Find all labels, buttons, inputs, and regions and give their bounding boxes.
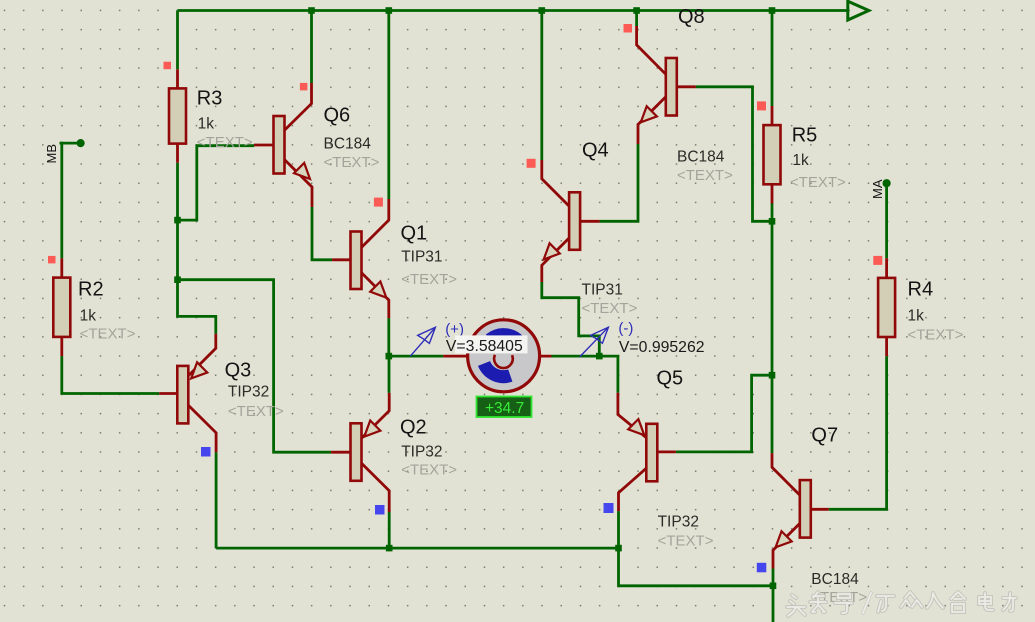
svg-text:R3: R3 [197,88,223,110]
svg-text:R2: R2 [78,279,104,301]
red selection markers [48,24,882,265]
svg-text:<TEXT>: <TEXT> [197,134,253,151]
transistor Q7 [772,453,829,568]
svg-text:MB: MB [44,144,59,164]
svg-text:<TEXT>: <TEXT> [401,271,457,288]
wire Q7 base chain to R4 [829,356,887,509]
svg-text:<TEXT>: <TEXT> [582,300,638,317]
svg-text:Q8: Q8 [678,6,705,28]
svg-text:1k: 1k [908,308,925,325]
svg-text:R5: R5 [792,125,818,147]
wire Q6 collector riser [310,11,313,84]
transistor Q4 [542,160,600,282]
svg-text:TIP31: TIP31 [582,282,623,299]
svg-text:TIP31: TIP31 [401,249,442,266]
wire MA to R4 top [885,183,888,258]
resistor R3 [169,69,186,163]
svg-text:<TEXT>: <TEXT> [228,403,284,420]
wire top power rail [178,9,848,12]
svg-text:BC184: BC184 [324,136,372,153]
svg-text:<TEXT>: <TEXT> [908,327,964,344]
svg-text:<TEXT>: <TEXT> [790,174,846,191]
blue selection markers [201,447,766,572]
svg-text:1k: 1k [80,308,97,325]
wire Q5 base chain [676,375,772,452]
svg-text:Q5: Q5 [657,368,684,390]
wire Q3 collector drop [215,452,218,548]
wire R5 bottom vertical to Q7 [771,204,774,454]
svg-text:TIP32: TIP32 [401,444,442,461]
wire motor node down to Q2 emitter [388,356,391,393]
svg-text:<TEXT>: <TEXT> [80,326,136,343]
wire bottom rail [216,547,618,550]
wire R5 riser [771,11,774,107]
transistor Q5 [618,393,676,511]
wire Q7 emitter drop [772,569,775,586]
wire Q8 base chain to R5 node [696,87,772,222]
resistor R4 [878,258,895,356]
watermark [787,592,1016,616]
wire Q1 emitter to motor node [387,318,390,356]
svg-text:Q3: Q3 [225,360,252,382]
transistor Q3 [159,334,216,453]
svg-text:Q2: Q2 [400,417,427,439]
wire R2 bottom to Q3 base [62,356,160,393]
svg-text:1k: 1k [792,152,809,169]
voltage probe minus [580,327,609,356]
svg-text:Q7: Q7 [811,425,838,447]
wire motor right lead to Q5 [552,356,618,393]
svg-text:TIP32: TIP32 [658,514,699,531]
wire Q8 emitter to Q4 base [600,144,638,221]
svg-text:+34.7: +34.7 [485,400,524,417]
svg-text:TIP32: TIP32 [228,384,269,401]
svg-text:BC184: BC184 [677,149,725,166]
wire Q6 emitter to Q1 base [312,207,332,260]
rail output arrow [848,1,869,20]
svg-text:V=3.58405: V=3.58405 [446,338,523,355]
transistor Q2 [331,393,389,512]
wire motor left lead [389,355,444,358]
svg-text:<TEXT>: <TEXT> [324,154,380,171]
transistor Q8 [637,26,696,144]
wire Q8 collector riser [635,11,638,27]
wire R3 bottom run [178,163,216,334]
wire Q5 collector drop [617,511,620,548]
svg-text:<TEXT>: <TEXT> [401,462,457,479]
svg-text:1k: 1k [198,116,215,133]
wire rail left drop to R3 [176,11,179,70]
wire node R3/Q6 base link [178,146,255,220]
svg-text:Q1: Q1 [401,223,428,245]
resistor R2 [53,258,70,356]
wire node R3/Q2 base link [178,280,332,453]
svg-text:V=0.995262: V=0.995262 [619,339,705,356]
wire MB to R2 top [60,142,63,259]
svg-text:Q4: Q4 [582,140,609,162]
svg-text:BC184: BC184 [811,571,859,588]
wire Q4 collector riser [540,11,543,161]
wire MB terminal stub [60,142,81,145]
transistor Q6 [254,83,312,207]
svg-text:MA: MA [870,179,885,199]
white readout box [455,335,528,353]
motor M1 [443,320,551,392]
svg-text:<TEXT>: <TEXT> [658,533,714,550]
wire Q4 emitter staircase [542,282,600,356]
svg-text:(-): (-) [618,320,633,337]
motor voltage readout +34.7 [477,397,532,418]
wire Q1 collector riser [387,11,390,200]
svg-text:R4: R4 [908,279,934,301]
svg-text:Q6: Q6 [324,105,351,127]
voltage probe plus [410,327,435,356]
svg-text:<TEXT>: <TEXT> [677,167,733,184]
wire Q2 collector drop [388,512,391,548]
transistor Q1 [332,199,389,318]
wire bottom right link [619,548,774,622]
resistor R5 [764,106,781,204]
node junction dots [77,7,891,589]
